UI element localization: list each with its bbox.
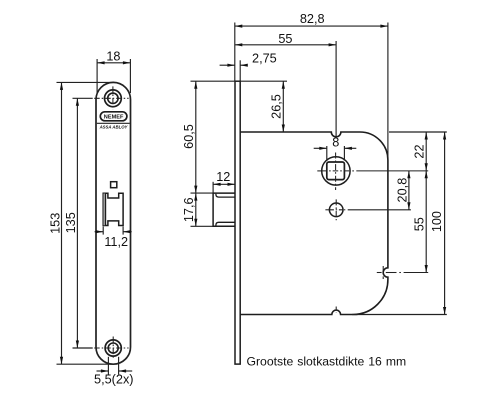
dimension 8 (spindle): [314, 146, 357, 161]
latch bolt side view: [213, 193, 235, 226]
svg-text:11,2: 11,2: [104, 235, 128, 249]
dimension 22: [389, 132, 447, 171]
dimension 12 (latch protrusion): [213, 182, 235, 193]
svg-text:Grootste slotkastdikte 16 mm: Grootste slotkastdikte 16 mm: [247, 355, 407, 369]
dimension 55 (right side): [425, 171, 428, 273]
dimension 2,75 (faceplate thickness): [220, 60, 248, 81]
top screw hole: [94, 86, 128, 109]
svg-text:12: 12: [216, 170, 230, 184]
svg-text:55: 55: [413, 217, 427, 231]
svg-text:135: 135: [64, 212, 78, 233]
svg-text:17,6: 17,6: [182, 197, 196, 222]
cylinder screw hole: [325, 199, 343, 220]
dimension 82,8 (total depth): [235, 23, 388, 161]
lock case body outline: [240, 132, 388, 315]
svg-text:22: 22: [413, 144, 427, 158]
dimension 5,5(2x) (screw hole dia): [97, 357, 133, 375]
line under logo: [97, 122, 130, 124]
center line hole to right dims: [344, 209, 411, 211]
svg-text:26,5: 26,5: [270, 94, 284, 119]
svg-text:2,75: 2,75: [252, 51, 277, 65]
dimension 18 (plate width): [97, 59, 130, 93]
bottom bump vertical tick: [335, 307, 337, 313]
dimension 100: [352, 132, 447, 315]
svg-text:ASSA ABLOY: ASSA ABLOY: [99, 125, 129, 130]
svg-text:5,5(2x): 5,5(2x): [94, 373, 134, 387]
svg-text:55: 55: [278, 32, 292, 46]
dimension 135 (hole to hole): [73, 98, 93, 348]
dimension 17,6: [191, 193, 214, 226]
latch cutout front view: [103, 193, 123, 225]
center line notch to right dims: [377, 272, 428, 274]
dimension 20,8: [407, 171, 410, 210]
dimension 11,2 (latch width): [95, 227, 132, 235]
center line spindle to right dims: [352, 170, 428, 172]
dimension 60,5: [191, 81, 236, 193]
NEMEF logo: [100, 112, 127, 121]
notch vertical tick: [382, 266, 384, 279]
svg-text:153: 153: [48, 213, 62, 234]
svg-text:82,8: 82,8: [300, 12, 325, 26]
svg-text:NEMEF: NEMEF: [104, 114, 124, 120]
small square cutout above latch: [111, 182, 117, 188]
svg-text:100: 100: [430, 211, 444, 232]
faceplate front view outline: [96, 82, 131, 364]
dimension 55 (backset): [235, 41, 336, 137]
svg-text:18: 18: [106, 49, 120, 63]
svg-text:20,8: 20,8: [395, 178, 409, 203]
spindle hole (square + circle): [317, 153, 350, 191]
dimension 153 (plate height): [57, 82, 114, 364]
bottom screw hole: [94, 337, 128, 360]
lock case faceplate bar (side view): [235, 81, 240, 364]
dimension 26,5: [240, 81, 287, 132]
svg-text:8: 8: [332, 136, 339, 150]
svg-text:60,5: 60,5: [182, 124, 196, 149]
